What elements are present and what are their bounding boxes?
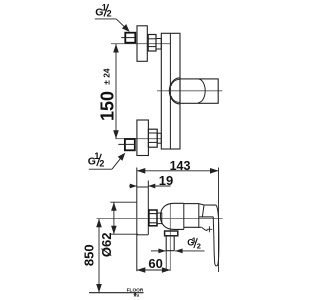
joint (side view) <box>198 204 200 228</box>
svg-text:150: 150 <box>98 91 118 121</box>
node centerline top inlet (front view) <box>111 43 170 45</box>
svg-text:850: 850 <box>81 244 96 266</box>
floor line <box>89 292 144 294</box>
svg-text:2: 2 <box>99 159 104 169</box>
node centerline handle (front view) <box>157 90 223 92</box>
dimension 143 <box>137 170 219 172</box>
outlet flange (side view) <box>165 231 178 236</box>
svg-text:± 24: ± 24 <box>101 68 111 85</box>
svg-text:19: 19 <box>159 173 173 188</box>
stub cylinder (side view) <box>157 213 162 224</box>
body front view <box>161 33 180 149</box>
dimension dia 62 <box>113 202 115 234</box>
escutcheon flange bottom <box>137 120 149 156</box>
dimension 60 <box>137 269 171 271</box>
outlet axis vertical (side view) <box>169 204 171 271</box>
coupling nut top <box>148 35 156 52</box>
leader G1/2 top <box>95 18 116 20</box>
dimension 850 <box>98 219 100 292</box>
centerline axis horizontal (side view) <box>97 217 223 219</box>
outlet pipe (side view) <box>166 236 174 251</box>
svg-text:60: 60 <box>148 256 162 271</box>
dome fillet top (front view) <box>171 79 180 86</box>
node centerline bottom inlet (front view) <box>116 138 162 140</box>
svg-text:พื้น: พื้น <box>133 290 140 297</box>
wall union nut top <box>125 33 135 43</box>
wall union nut bottom <box>125 139 135 150</box>
stub top <box>156 39 161 50</box>
pivot cross <box>207 228 213 230</box>
coupling nut bottom <box>148 129 157 147</box>
dimension 150 line <box>115 44 117 139</box>
svg-text:143: 143 <box>170 159 191 173</box>
pipe edge extension <box>165 251 167 270</box>
mounting plate (side view) <box>147 181 149 235</box>
svg-text:2: 2 <box>107 9 112 19</box>
svg-text:Ø62: Ø62 <box>99 233 114 258</box>
leader G1/2 bottom-left <box>89 168 112 170</box>
handle cone arc (front view) <box>198 79 205 103</box>
escutcheon flange top <box>137 26 147 62</box>
wall line (side view) <box>136 168 138 272</box>
svg-text:2: 2 <box>197 242 201 251</box>
dimension G1/2 outlet <box>151 250 166 252</box>
hex nut (side view) <box>149 210 157 226</box>
dome fillet bottom (front view) <box>171 96 180 103</box>
lever grip (side view) <box>204 204 216 206</box>
stub bottom <box>157 133 161 143</box>
lever heel curve <box>202 227 208 231</box>
handle grip (front view) <box>180 79 218 103</box>
lever blade (side view) <box>213 205 219 266</box>
handle dome (front view) <box>169 78 180 104</box>
neck (side view) <box>184 203 199 205</box>
valve body (side view) <box>160 203 183 229</box>
dimension 19 <box>129 185 137 187</box>
